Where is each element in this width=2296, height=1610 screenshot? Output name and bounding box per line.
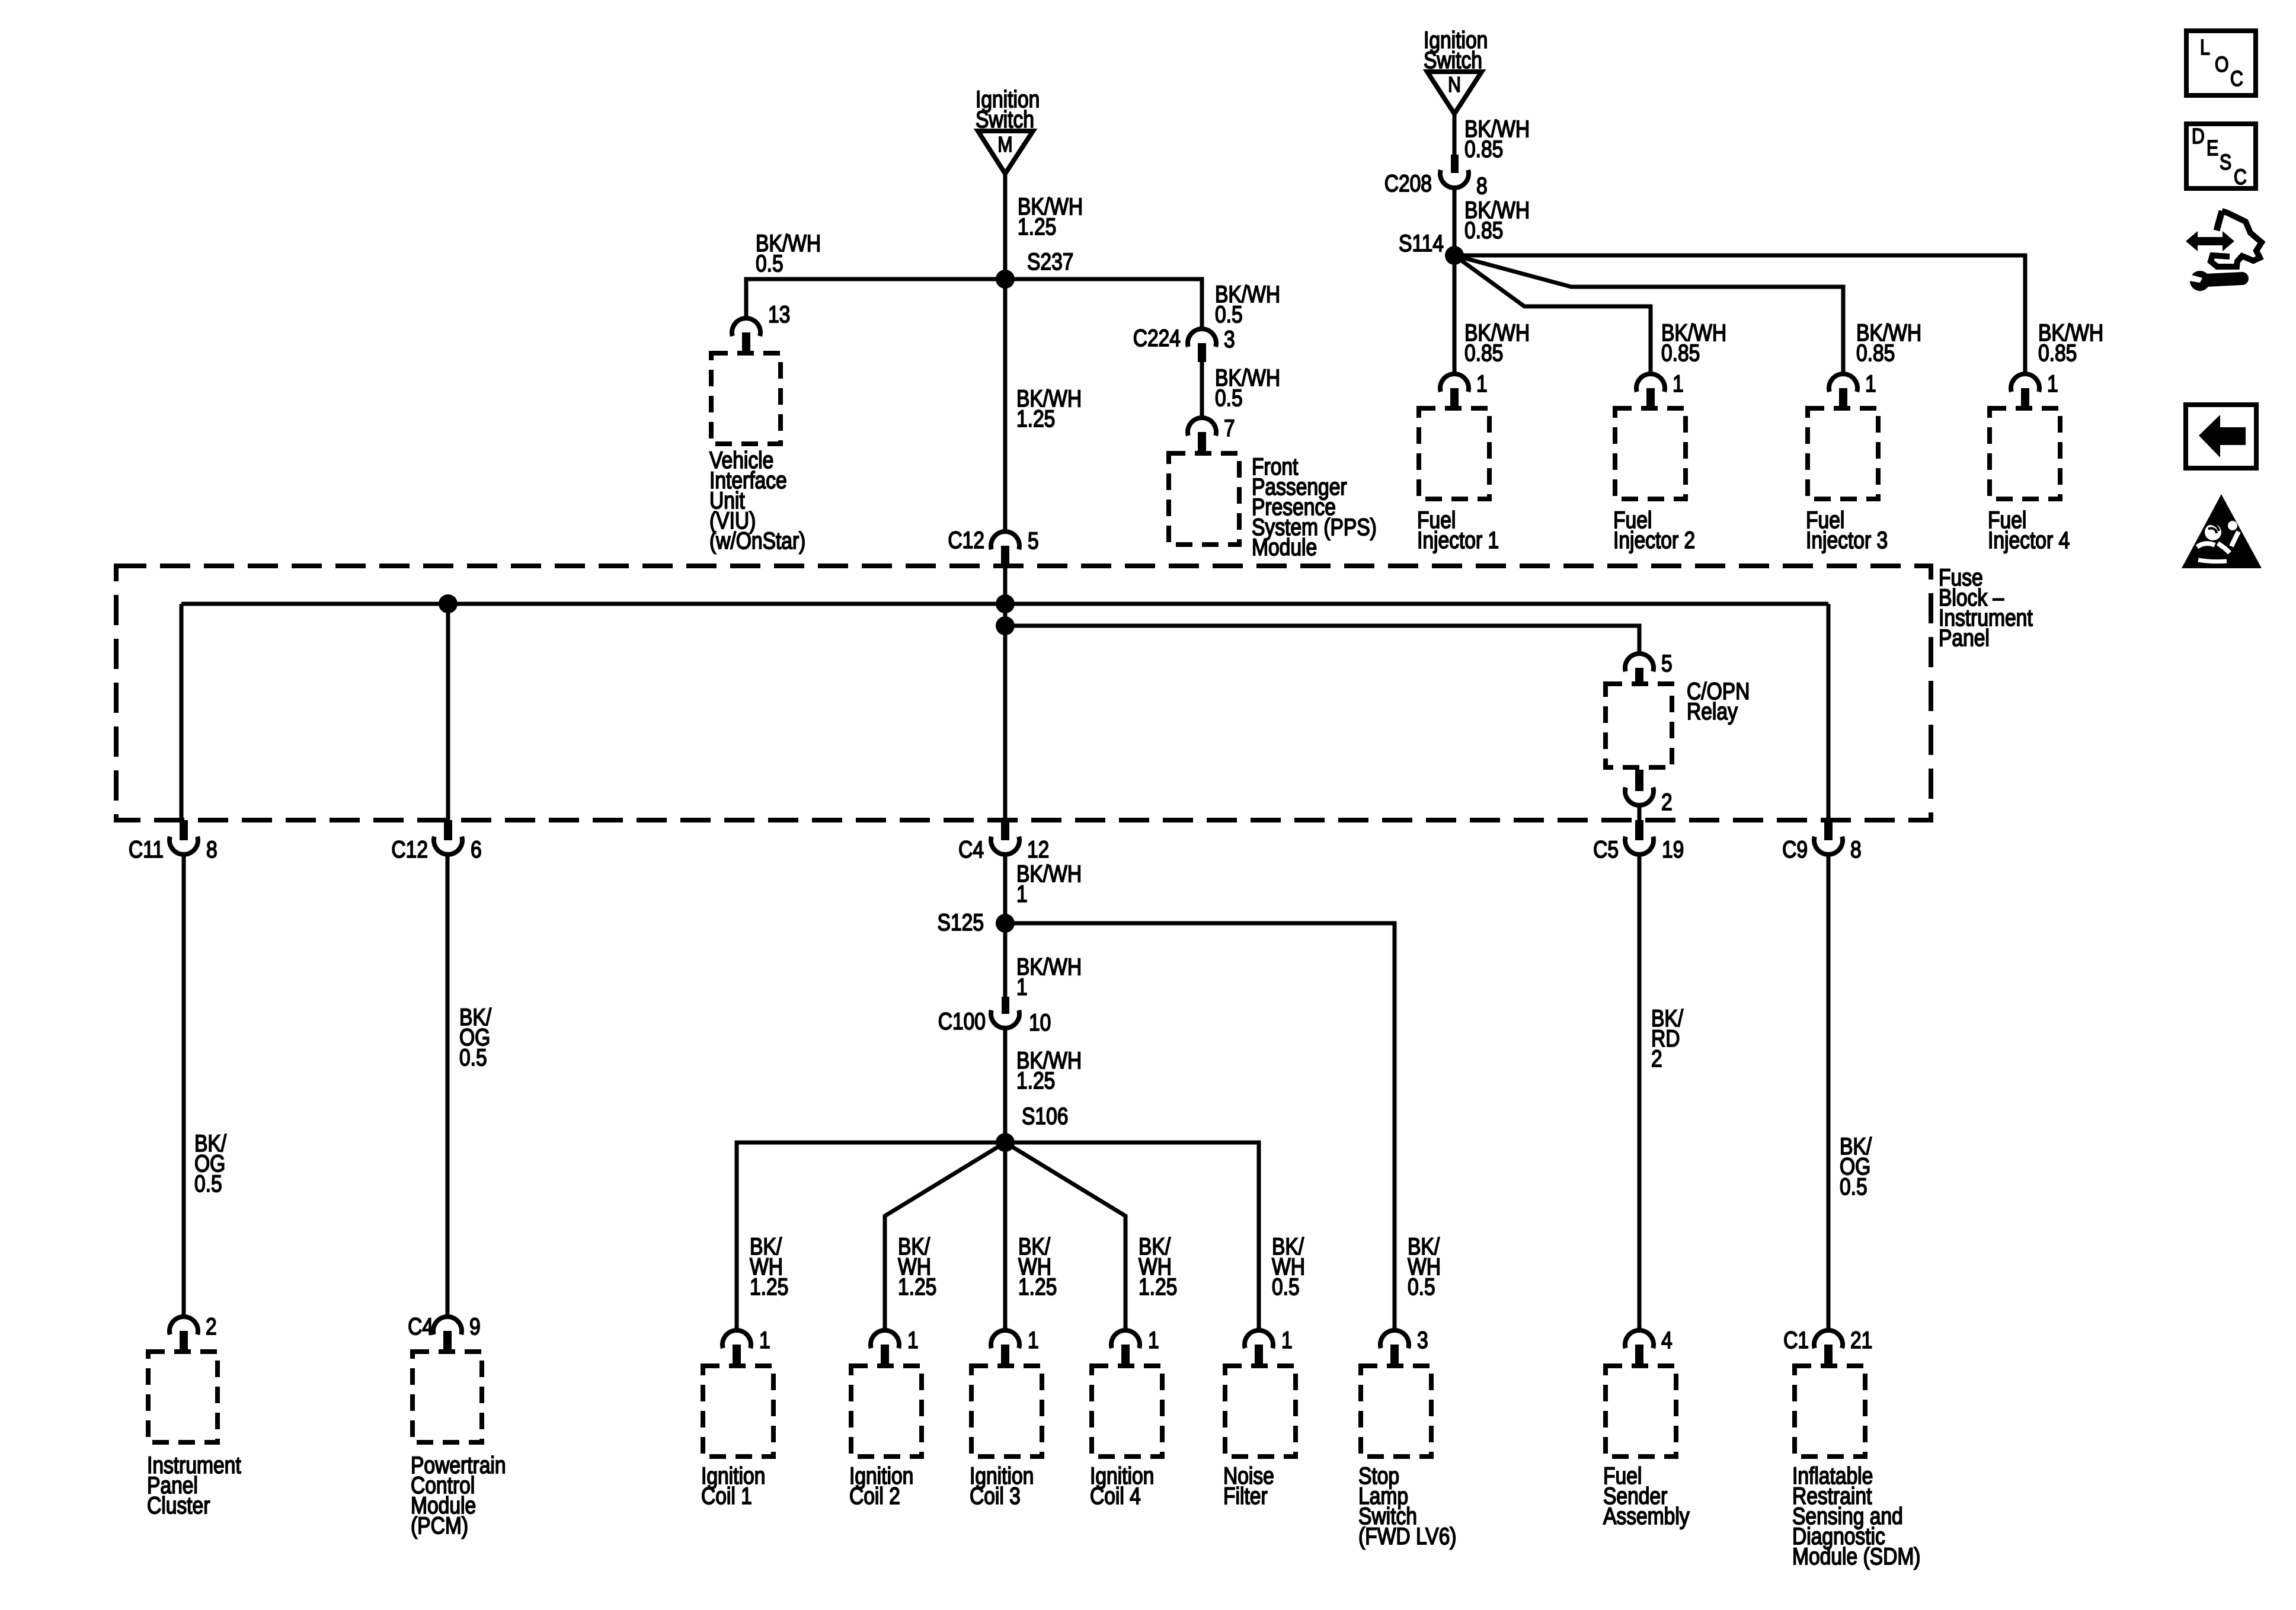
fuel sender assembly box [1606,1366,1676,1457]
ignition coil 1 box [703,1366,773,1457]
wire C9 to SDM [1827,854,1831,1330]
connector C208 pin 8 [1384,155,1488,199]
ignition coil 1 label [701,1462,765,1509]
wire label BK/WH 0.85 below C208 [1464,197,1530,243]
svg-text:1.25: 1.25 [1018,1273,1057,1299]
svg-text:0.5: 0.5 [1272,1273,1300,1299]
svg-text:C224: C224 [1133,325,1181,351]
svg-text:1: 1 [1476,370,1488,396]
wire label BK/WH 0.5 above C224 [1215,281,1280,327]
connector 1 ignition coil 1 [722,1327,770,1363]
wire relay to fuse block edge [1638,805,1642,820]
connector 5 at C/OPN relay [1625,650,1673,681]
svg-text:L: L [2200,36,2210,60]
svg-text:1.25: 1.25 [1016,405,1055,431]
svg-text:Injector 1: Injector 1 [1417,527,1499,553]
svg-text:12: 12 [1027,836,1049,862]
wire label BK/WH 1 below S125 [1016,953,1082,1000]
svg-text:O: O [2215,53,2229,77]
wire S114 to fuel injector 3 [1454,255,1843,375]
powertrain control module label [411,1452,506,1538]
wire ignition switch M to S237 [1003,174,1008,279]
wire label BK/WH 0.85 injector 4 [2038,319,2103,366]
connector 3 stop lamp switch [1380,1327,1428,1363]
wire main vertical inside fuse block [1003,604,1008,820]
svg-text:Coil 4: Coil 4 [1090,1483,1141,1509]
wire C100 to S106 [1003,1028,1008,1142]
connector C5 pin 19 [1593,820,1684,863]
svg-text:1: 1 [759,1327,770,1353]
svg-text:9: 9 [469,1313,481,1339]
ignition coil 4 box [1092,1366,1162,1457]
svg-text:Assembly: Assembly [1603,1503,1690,1529]
connector C1 pin 21 at SDM [1783,1327,1872,1363]
svg-text:C4: C4 [958,836,984,862]
wire S125 to stop lamp switch [1005,923,1395,1330]
wire S125 to C100 [1003,923,1008,997]
svg-text:Coil 2: Coil 2 [849,1483,900,1509]
svg-text:0.5: 0.5 [459,1044,487,1070]
fuel injector 3 box [1808,408,1878,499]
fuse block bus wire B to relay [1005,626,1639,654]
svg-text:8: 8 [1476,172,1488,199]
svg-text:Panel: Panel [1939,625,1990,651]
wire ignition switch N to C208 [1453,114,1457,155]
wire S106 to ignition coil 3 [1003,1142,1008,1330]
vehicle interface unit box [711,353,781,444]
connector 2 below C/OPN relay [1625,770,1673,815]
svg-text:1: 1 [1028,1327,1039,1353]
svg-text:1.25: 1.25 [1016,1067,1055,1093]
node S237 [996,248,1073,289]
C/OPN relay label [1687,678,1750,724]
ignition coil 3 label [970,1462,1034,1509]
connector 4 fuel sender [1625,1327,1673,1363]
ignition switch N label [1424,27,1488,73]
fuel injector 1 label [1417,507,1499,553]
connector C4 pin 9 at PCM [408,1313,481,1349]
node S106 [996,1103,1068,1152]
ignition coil 4 label [1090,1462,1154,1509]
svg-text:3: 3 [1417,1327,1428,1353]
svg-text:C11: C11 [129,836,164,862]
wire fuse block to C12 bottom [446,604,450,820]
wire C208 to S114 [1453,188,1457,255]
svg-text:1: 1 [1281,1327,1293,1353]
svg-text:C12: C12 [948,527,984,553]
svg-text:21: 21 [1850,1327,1872,1353]
ignition switch M label [976,86,1040,132]
wire S114 to fuel injector 4 [1454,255,2025,375]
connector 1 ignition coil 4 [1111,1327,1159,1363]
svg-text:Injector 4: Injector 4 [1988,527,2070,553]
connector 1 noise filter [1245,1327,1293,1363]
wire C5 to fuel sender [1638,854,1642,1330]
svg-text:1.25: 1.25 [898,1273,936,1299]
wire label BK/WH 1 above S125 [1016,860,1082,907]
wire label BK/WH 0.85 injector 1 [1464,319,1530,366]
svg-text:(w/OnStar): (w/OnStar) [709,527,805,553]
svg-text:7: 7 [1224,415,1235,441]
wire label BK/RD 2 fuel sender [1651,1005,1684,1071]
svg-text:1: 1 [1016,974,1028,1000]
wire label BK/WH 1.25 upper [1018,193,1083,239]
svg-text:0.85: 0.85 [1464,340,1503,366]
svg-text:8: 8 [206,836,218,862]
svg-text:E: E [2207,137,2218,161]
connector 1 ignition coil 3 [991,1327,1039,1363]
svg-text:C208: C208 [1384,170,1432,196]
wire label BK/WH 1.25 coil 2 [898,1233,936,1299]
svg-text:8: 8 [1850,836,1862,862]
connector 1 ignition coil 2 [871,1327,919,1363]
ignition coil 2 label [849,1462,913,1509]
svg-text:5: 5 [1661,650,1673,676]
svg-text:C5: C5 [1593,836,1619,862]
wire fuse block to C11 [180,604,184,820]
connector 1 fuel injector 1 [1440,370,1488,406]
wire label BK/WH 1.25 lower [1016,385,1082,431]
wire fuse block to C9 [1827,604,1831,820]
svg-text:C1: C1 [1783,1327,1809,1353]
connector C11 pin 8 [129,820,218,863]
fuse block instrument panel box [116,566,1931,820]
front passenger presence system box [1169,453,1239,545]
svg-text:0.5: 0.5 [1215,301,1243,327]
wire label BK/WH 1.25 above S106 [1016,1047,1082,1093]
svg-text:5: 5 [1028,527,1039,553]
wire label BK/WH 0.5 noise filter [1272,1233,1305,1299]
wire S237 to C12 [1003,279,1008,532]
svg-text:Module (SDM): Module (SDM) [1792,1543,1920,1569]
connector C224 pin 3 [1133,325,1235,362]
node S114 [1399,230,1464,265]
wire S237 to C224 branch [1005,279,1202,329]
ignition switch M triangle [978,131,1033,174]
svg-text:1: 1 [907,1327,919,1353]
svg-text:0.5: 0.5 [194,1170,222,1196]
front passenger presence system label [1252,453,1377,560]
connector 1 fuel injector 2 [1636,370,1684,406]
svg-text:Module: Module [1252,534,1317,560]
wire S106 to ignition coil 4 [1005,1142,1125,1330]
svg-text:Coil 1: Coil 1 [701,1483,752,1509]
wire label BK/WH 1.25 coil 4 [1139,1233,1177,1299]
svg-text:Injector 3: Injector 3 [1806,527,1888,553]
connector 7 at PPS module [1188,415,1235,451]
svg-text:0.85: 0.85 [2038,340,2077,366]
wire C4 to S125 [1003,854,1008,923]
wire C224 to PPS [1200,362,1204,418]
DESC icon box [2186,124,2256,190]
fuel injector 4 label [1988,507,2070,553]
connector 1 fuel injector 3 [1829,370,1876,406]
svg-text:0.85: 0.85 [1464,217,1503,243]
svg-text:0.5: 0.5 [1215,385,1243,411]
wire C12 into fuse block [1003,566,1008,604]
wire label BK/WH 0.85 injector 3 [1856,319,1921,366]
wire C12 to PCM [446,854,450,1317]
diagnostic icon double arrow [2186,231,2234,251]
svg-text:S114: S114 [1399,230,1444,256]
svg-text:0.5: 0.5 [756,250,784,276]
diagnostic icon wrench [2189,271,2242,291]
svg-text:2: 2 [1651,1045,1662,1071]
connector 2 at instrument panel cluster [170,1313,217,1349]
wire label BK/OG 0.5 SDM [1840,1133,1872,1199]
vehicle interface unit label [709,447,805,553]
fuel injector 1 box [1419,408,1489,499]
svg-text:4: 4 [1661,1327,1673,1353]
svg-text:1.25: 1.25 [1139,1273,1177,1299]
fuse block instrument panel label [1939,564,2033,651]
airbag warning triangle [2182,494,2262,568]
wire label BK/WH 1.25 coil 1 [750,1233,788,1299]
connector C4 pin 12 [958,820,1049,863]
node on bus at C12 branch [439,594,458,613]
instrument panel cluster label [147,1452,241,1518]
wire S106 to ignition coil 1 [737,1142,1005,1330]
powertrain control module box [412,1352,482,1442]
fuel sender assembly label [1603,1462,1690,1529]
svg-text:(PCM): (PCM) [411,1512,468,1538]
svg-text:1: 1 [1016,881,1028,907]
wire label BK/WH 0.85 above C208 [1464,116,1530,162]
svg-text:0.85: 0.85 [1661,340,1700,366]
svg-text:1.25: 1.25 [1018,213,1056,239]
svg-text:1: 1 [1148,1327,1159,1353]
stop lamp switch label [1358,1462,1456,1549]
stop lamp switch box [1361,1366,1431,1457]
svg-text:3: 3 [1224,326,1235,352]
fuel injector 2 label [1613,507,1695,553]
svg-text:(FWD LV6): (FWD LV6) [1358,1523,1456,1549]
node on main vertical at relay branch [996,616,1015,635]
connector C100 pin 10 [938,997,1051,1036]
svg-text:1: 1 [2047,370,2058,396]
svg-text:S106: S106 [1022,1103,1068,1129]
svg-text:C100: C100 [938,1008,986,1034]
wire label BK/WH 1.25 coil 3 [1018,1233,1057,1299]
svg-text:C9: C9 [1782,836,1808,862]
fuel injector 2 box [1615,408,1686,499]
svg-text:0.5: 0.5 [1408,1273,1435,1299]
connector 1 fuel injector 4 [2011,370,2058,406]
svg-text:C12: C12 [391,836,428,862]
svg-text:1: 1 [1865,370,1876,396]
svg-text:C4: C4 [408,1313,433,1339]
inflatable restraint SDM box [1795,1366,1865,1457]
wire label BK/OG 0.5 cluster [194,1130,227,1196]
inflatable restraint SDM label [1792,1462,1920,1569]
svg-text:Cluster: Cluster [147,1492,210,1518]
noise filter label [1223,1462,1274,1509]
svg-text:Relay: Relay [1687,698,1738,724]
back arrow icon box [2186,405,2256,468]
wire label BK/WH 0.5 below C224 [1215,364,1280,411]
svg-text:2: 2 [206,1313,217,1339]
svg-text:C: C [2234,166,2247,190]
svg-text:Filter: Filter [1223,1483,1268,1509]
wire C11 to instrument panel cluster [182,854,186,1317]
ignition coil 3 box [971,1366,1042,1457]
ignition switch N triangle [1427,72,1482,114]
wire S114 to fuel injector 2 [1454,255,1651,375]
connector C9 pin 8 [1782,820,1862,863]
instrument panel cluster box [148,1352,218,1442]
wire label BK/WH 0.5 stop lamp [1408,1233,1441,1299]
svg-text:0.85: 0.85 [1464,136,1503,162]
svg-text:1: 1 [1673,370,1684,396]
wire S106 to noise filter [1005,1142,1259,1330]
wire label BK/WH 0.85 injector 2 [1661,319,1726,366]
svg-text:Coil 3: Coil 3 [970,1483,1021,1509]
node S125 [938,909,1015,935]
diagnostic icon car outline [2211,211,2262,267]
wire label BK/OG 0.5 PCM [459,1004,492,1070]
connector C12 pin 5 fuse block top [948,527,1038,568]
svg-text:S: S [2220,151,2231,175]
noise filter box [1225,1366,1296,1457]
node on bus at main vertical [996,594,1015,613]
fuel injector 3 label [1806,507,1888,553]
svg-text:1.25: 1.25 [750,1273,788,1299]
svg-text:S237: S237 [1027,248,1073,274]
svg-text:C: C [2230,68,2243,91]
svg-text:D: D [2192,125,2205,149]
fuse block bus wire A [181,602,1828,606]
svg-text:13: 13 [768,301,790,327]
svg-text:19: 19 [1662,836,1684,862]
svg-text:0.5: 0.5 [1840,1173,1868,1199]
svg-text:6: 6 [471,836,482,862]
fuel injector 4 box [1990,408,2060,499]
wire S237 to VIU branch [746,279,1005,318]
svg-text:0.85: 0.85 [1856,340,1895,366]
svg-text:M: M [997,133,1012,157]
svg-text:2: 2 [1661,789,1673,815]
C/OPN relay box [1606,684,1672,767]
ignition coil 2 box [851,1366,922,1457]
wire S106 to ignition coil 2 [885,1142,1005,1330]
svg-text:10: 10 [1029,1009,1051,1035]
svg-text:N: N [1448,73,1461,97]
svg-text:S125: S125 [938,909,984,935]
wire label BK/WH 0.5 VIU branch [756,230,821,276]
LOC icon box [2186,31,2256,95]
connector C12 pin 6 [391,820,481,863]
wire S114 to fuel injector 1 [1453,255,1457,374]
connector 13 at VIU [732,301,790,351]
svg-text:Injector 2: Injector 2 [1613,527,1695,553]
